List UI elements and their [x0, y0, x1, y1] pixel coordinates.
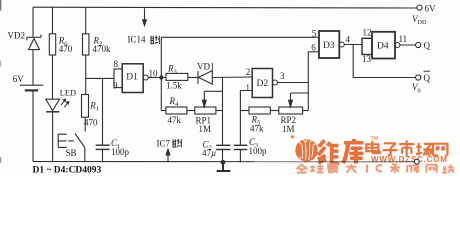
watermark char ku	[343, 139, 363, 163]
wire D1 output to node	[148, 77, 166, 79]
wire RP2 right vertical to pin6	[307, 52, 309, 111]
LED	[46, 99, 69, 112]
watermark slogan I	[366, 165, 368, 173]
svg-text:47k: 47k	[250, 124, 264, 134]
wire left battery branch vertical	[32, 7, 34, 161]
svg-text:4: 4	[346, 35, 351, 45]
svg-text:1.5k: 1.5k	[166, 81, 182, 91]
watermark slogan da	[346, 164, 356, 173]
capacitor C1 100p	[96, 78, 110, 161]
watermark char wei	[318, 140, 339, 163]
IC14 pin annotation arrow	[143, 8, 147, 25]
svg-text:V0: V0	[412, 82, 421, 94]
label IC14 pin	[128, 35, 160, 45]
svg-text:6: 6	[311, 43, 316, 53]
scan artifact top left	[0, 0, 1, 11]
pushbutton SB	[58, 134, 85, 162]
wire bottom ground rail	[33, 161, 414, 163]
svg-text:Q: Q	[424, 41, 431, 51]
watermark logo circle	[291, 135, 318, 161]
svg-text:470: 470	[84, 118, 98, 128]
watermark char dian	[366, 141, 379, 153]
svg-text:6V: 6V	[425, 4, 437, 14]
resistor R3 1.5k	[166, 73, 188, 80]
svg-text:470k: 470k	[93, 44, 112, 54]
wire D3 output to D4	[344, 44, 362, 46]
svg-text:100p: 100p	[249, 146, 268, 156]
wire R5 to RP2	[270, 110, 279, 112]
IC7 pin annotation arrow	[166, 149, 170, 162]
svg-text:8: 8	[114, 59, 119, 69]
wire pin5 feedback line	[161, 36, 319, 38]
svg-text:2: 2	[246, 67, 251, 77]
wire D4 output to Q	[400, 44, 416, 46]
svg-text:Q: Q	[424, 73, 431, 83]
svg-text:47µ: 47µ	[202, 148, 216, 158]
svg-text:SB: SB	[66, 148, 77, 158]
terminal Q	[416, 42, 421, 47]
nand gate D1	[122, 64, 148, 93]
svg-text:6V: 6V	[13, 74, 24, 84]
svg-text:IC14: IC14	[128, 35, 147, 45]
svg-text:VD2: VD2	[8, 31, 26, 41]
wire node vertical up and down	[160, 37, 162, 110]
svg-text:D3: D3	[323, 41, 335, 51]
wire R2 R1 branch vertical	[84, 7, 87, 131]
svg-text:R4: R4	[169, 96, 180, 108]
label Qbar	[424, 71, 431, 83]
resistor R1 470	[82, 95, 89, 118]
zener diode VD2	[27, 35, 41, 50]
svg-text:D4: D4	[377, 42, 389, 52]
watermark slogan gou	[407, 165, 418, 173]
wire D2 R5 row	[240, 110, 249, 112]
svg-text:LED: LED	[60, 88, 76, 97]
watermark slogan zui	[328, 164, 338, 172]
svg-text:9: 9	[113, 81, 118, 91]
wire pin6 to D3	[308, 51, 319, 53]
battery 6V	[20, 85, 43, 90]
svg-text:3: 3	[280, 71, 285, 81]
svg-text:11: 11	[399, 34, 408, 44]
wire Qbar branch	[353, 45, 415, 78]
svg-text:D1: D1	[126, 73, 138, 83]
ground junction dot	[221, 160, 226, 165]
wire VD1 to timing node	[212, 76, 252, 79]
nand gate D1 input tie box	[114, 69, 122, 88]
diode VD1	[198, 71, 212, 85]
svg-text:D1 ~ D4:CD4093: D1 ~ D4:CD4093	[33, 166, 102, 175]
nand gate D4	[372, 32, 400, 59]
scan artifact left edge	[0, 61, 1, 67]
watermark slogan quan	[296, 165, 307, 173]
node junction dot	[159, 75, 163, 79]
svg-text:R1: R1	[89, 101, 99, 113]
terminal Qbar	[416, 75, 421, 80]
wire timing node vertical	[222, 77, 224, 145]
watermark slogan wang2	[426, 165, 436, 173]
watermark char wang	[433, 144, 447, 156]
svg-text:1M: 1M	[199, 124, 212, 134]
svg-text:5: 5	[312, 29, 317, 39]
wire D2 pin1	[240, 91, 252, 111]
svg-text:47k: 47k	[168, 115, 182, 125]
potentiometer RP2 1M	[279, 93, 309, 114]
wire R3 to VD1	[188, 77, 198, 79]
wire top supply rail	[33, 6, 417, 9]
svg-text:12: 12	[363, 27, 372, 37]
watermark slogan cai	[390, 164, 400, 173]
nand gate D3	[319, 31, 344, 58]
svg-text:VDD: VDD	[412, 14, 427, 26]
resistor R6 470	[49, 34, 55, 55]
svg-text:1: 1	[246, 83, 251, 93]
capacitor C2 47u	[216, 145, 230, 162]
watermark char zi	[383, 143, 398, 155]
svg-text:470: 470	[59, 44, 73, 54]
watermark char chang	[416, 143, 432, 156]
potentiometer RP1 1M	[195, 91, 223, 114]
wire R4 row from node	[161, 110, 166, 112]
resistor R4 47k	[166, 107, 187, 114]
watermark char shi	[399, 140, 414, 156]
svg-text:D2: D2	[257, 79, 269, 89]
label IC7 pin	[157, 139, 182, 149]
svg-text:WWW.DZSC.COM: WWW.DZSC.COM	[371, 155, 448, 164]
watermark slogan C	[376, 165, 382, 171]
wire R4 to RP1	[187, 110, 195, 112]
nand gate D2	[252, 69, 277, 98]
ground symbol	[217, 162, 231, 171]
resistor R5 47k	[249, 107, 270, 114]
wire input node horizontal to D1	[86, 77, 114, 79]
svg-text:13: 13	[362, 54, 372, 64]
svg-text:1M: 1M	[282, 124, 295, 134]
resistor R2 470k	[83, 34, 89, 55]
nand gate D4 input tie box	[362, 38, 372, 54]
wire D2 output	[278, 82, 309, 84]
capacitor C3 100p	[234, 111, 248, 163]
watermark slogan qiu	[310, 164, 324, 172]
svg-text:IC7: IC7	[157, 139, 171, 149]
terminal ground rail end	[414, 159, 419, 164]
svg-text:100p: 100p	[111, 147, 130, 157]
watermark slogan zhan	[442, 164, 453, 172]
terminal 6V	[417, 5, 422, 10]
svg-text:VD1: VD1	[197, 61, 215, 71]
wire R6 LED branch vertical	[52, 7, 54, 161]
